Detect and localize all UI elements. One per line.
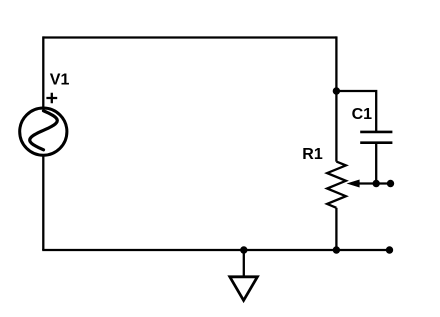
junction dot R1 bottom [333,246,340,253]
terminal dot wiper output [387,180,394,187]
wire C1 bottom lead [375,143,377,184]
plus polarity mark [46,93,57,103]
ground [230,250,258,300]
voltage source V1 [20,108,67,155]
wiper arrowhead [347,180,360,188]
junction dot node R1 top / C1 branch [333,87,340,94]
wire right vertical lower (R1 to bottom rail) [335,208,337,251]
svg-text:V1: V1 [50,72,70,89]
svg-text:C1: C1 [352,106,373,123]
capacitor C1 [360,132,392,143]
wire left vertical through V1 [42,36,44,250]
wire wiper horizontal [355,182,391,184]
svg-text:R1: R1 [302,146,323,163]
terminal dot bottom output [386,246,393,253]
wire right vertical upper (top rail to R1) [335,36,337,161]
resistor R1 (potentiometer body) [327,162,346,208]
junction dot wiper / C1 bottom [373,180,380,187]
wire bottom rail [42,249,389,251]
junction dot ground node [240,246,247,253]
wire top rail [43,36,336,38]
wire C1 top branch [336,91,376,132]
